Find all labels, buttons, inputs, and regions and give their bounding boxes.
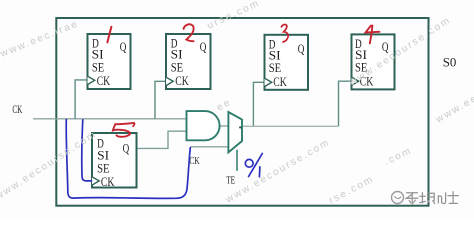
svg-text:Q: Q	[123, 140, 130, 155]
wire FF4 clock tap	[339, 81, 352, 126]
wire FF5 Q to AND input	[137, 131, 187, 148]
mux output pin dot	[239, 126, 241, 128]
wire TE select	[236, 150, 238, 171]
flip-flop FF2	[166, 34, 211, 89]
flip-flop FF3	[265, 35, 309, 90]
red mark 4	[366, 25, 380, 43]
svg-text:Q: Q	[298, 41, 305, 56]
red mark 3	[281, 24, 288, 42]
svg-text:Q: Q	[382, 39, 389, 54]
svg-text:SE: SE	[269, 60, 281, 75]
svg-text:CK: CK	[175, 73, 189, 88]
svg-text:Q: Q	[120, 39, 127, 54]
brand logo circle	[392, 192, 404, 204]
flip-flop FF1	[88, 34, 131, 89]
mux U2	[228, 112, 242, 152]
red mark 5	[113, 123, 134, 137]
blue wire CK to FF5 clock	[82, 120, 92, 181]
wire CK bus	[33, 118, 187, 120]
flip-flop FF5	[92, 133, 137, 189]
AND gate U1	[187, 111, 220, 140]
brand text dongba ju shi	[406, 192, 459, 205]
blue annotation slash	[249, 154, 263, 177]
svg-text:CK: CK	[97, 73, 111, 88]
wire FF3 clock tap	[253, 82, 264, 126]
wire FF2 clock tap	[155, 81, 166, 119]
wire mux output gated clock	[242, 125, 339, 127]
svg-text:CK: CK	[12, 104, 22, 116]
svg-text:SE: SE	[171, 59, 183, 74]
svg-text:TE: TE	[226, 176, 235, 187]
red mark 1	[107, 27, 111, 43]
blue annotation 0	[245, 159, 253, 167]
blue annotation 1	[258, 167, 261, 177]
flip-flop FF4	[352, 34, 395, 89]
svg-text:CK: CK	[189, 155, 200, 167]
svg-text:S0: S0	[443, 54, 457, 69]
frame border	[56, 18, 428, 206]
svg-text:CK: CK	[101, 174, 115, 189]
svg-text:CK: CK	[273, 74, 287, 89]
wire FF1 clock tap	[75, 80, 87, 119]
wire CK stub into mux	[190, 146, 228, 148]
svg-text:SE: SE	[92, 59, 104, 74]
svg-text:Q: Q	[200, 39, 207, 54]
wire AND output to mux	[220, 125, 229, 127]
red mark 2	[184, 24, 194, 41]
blue wire CK to mux CK stub	[66, 120, 190, 199]
